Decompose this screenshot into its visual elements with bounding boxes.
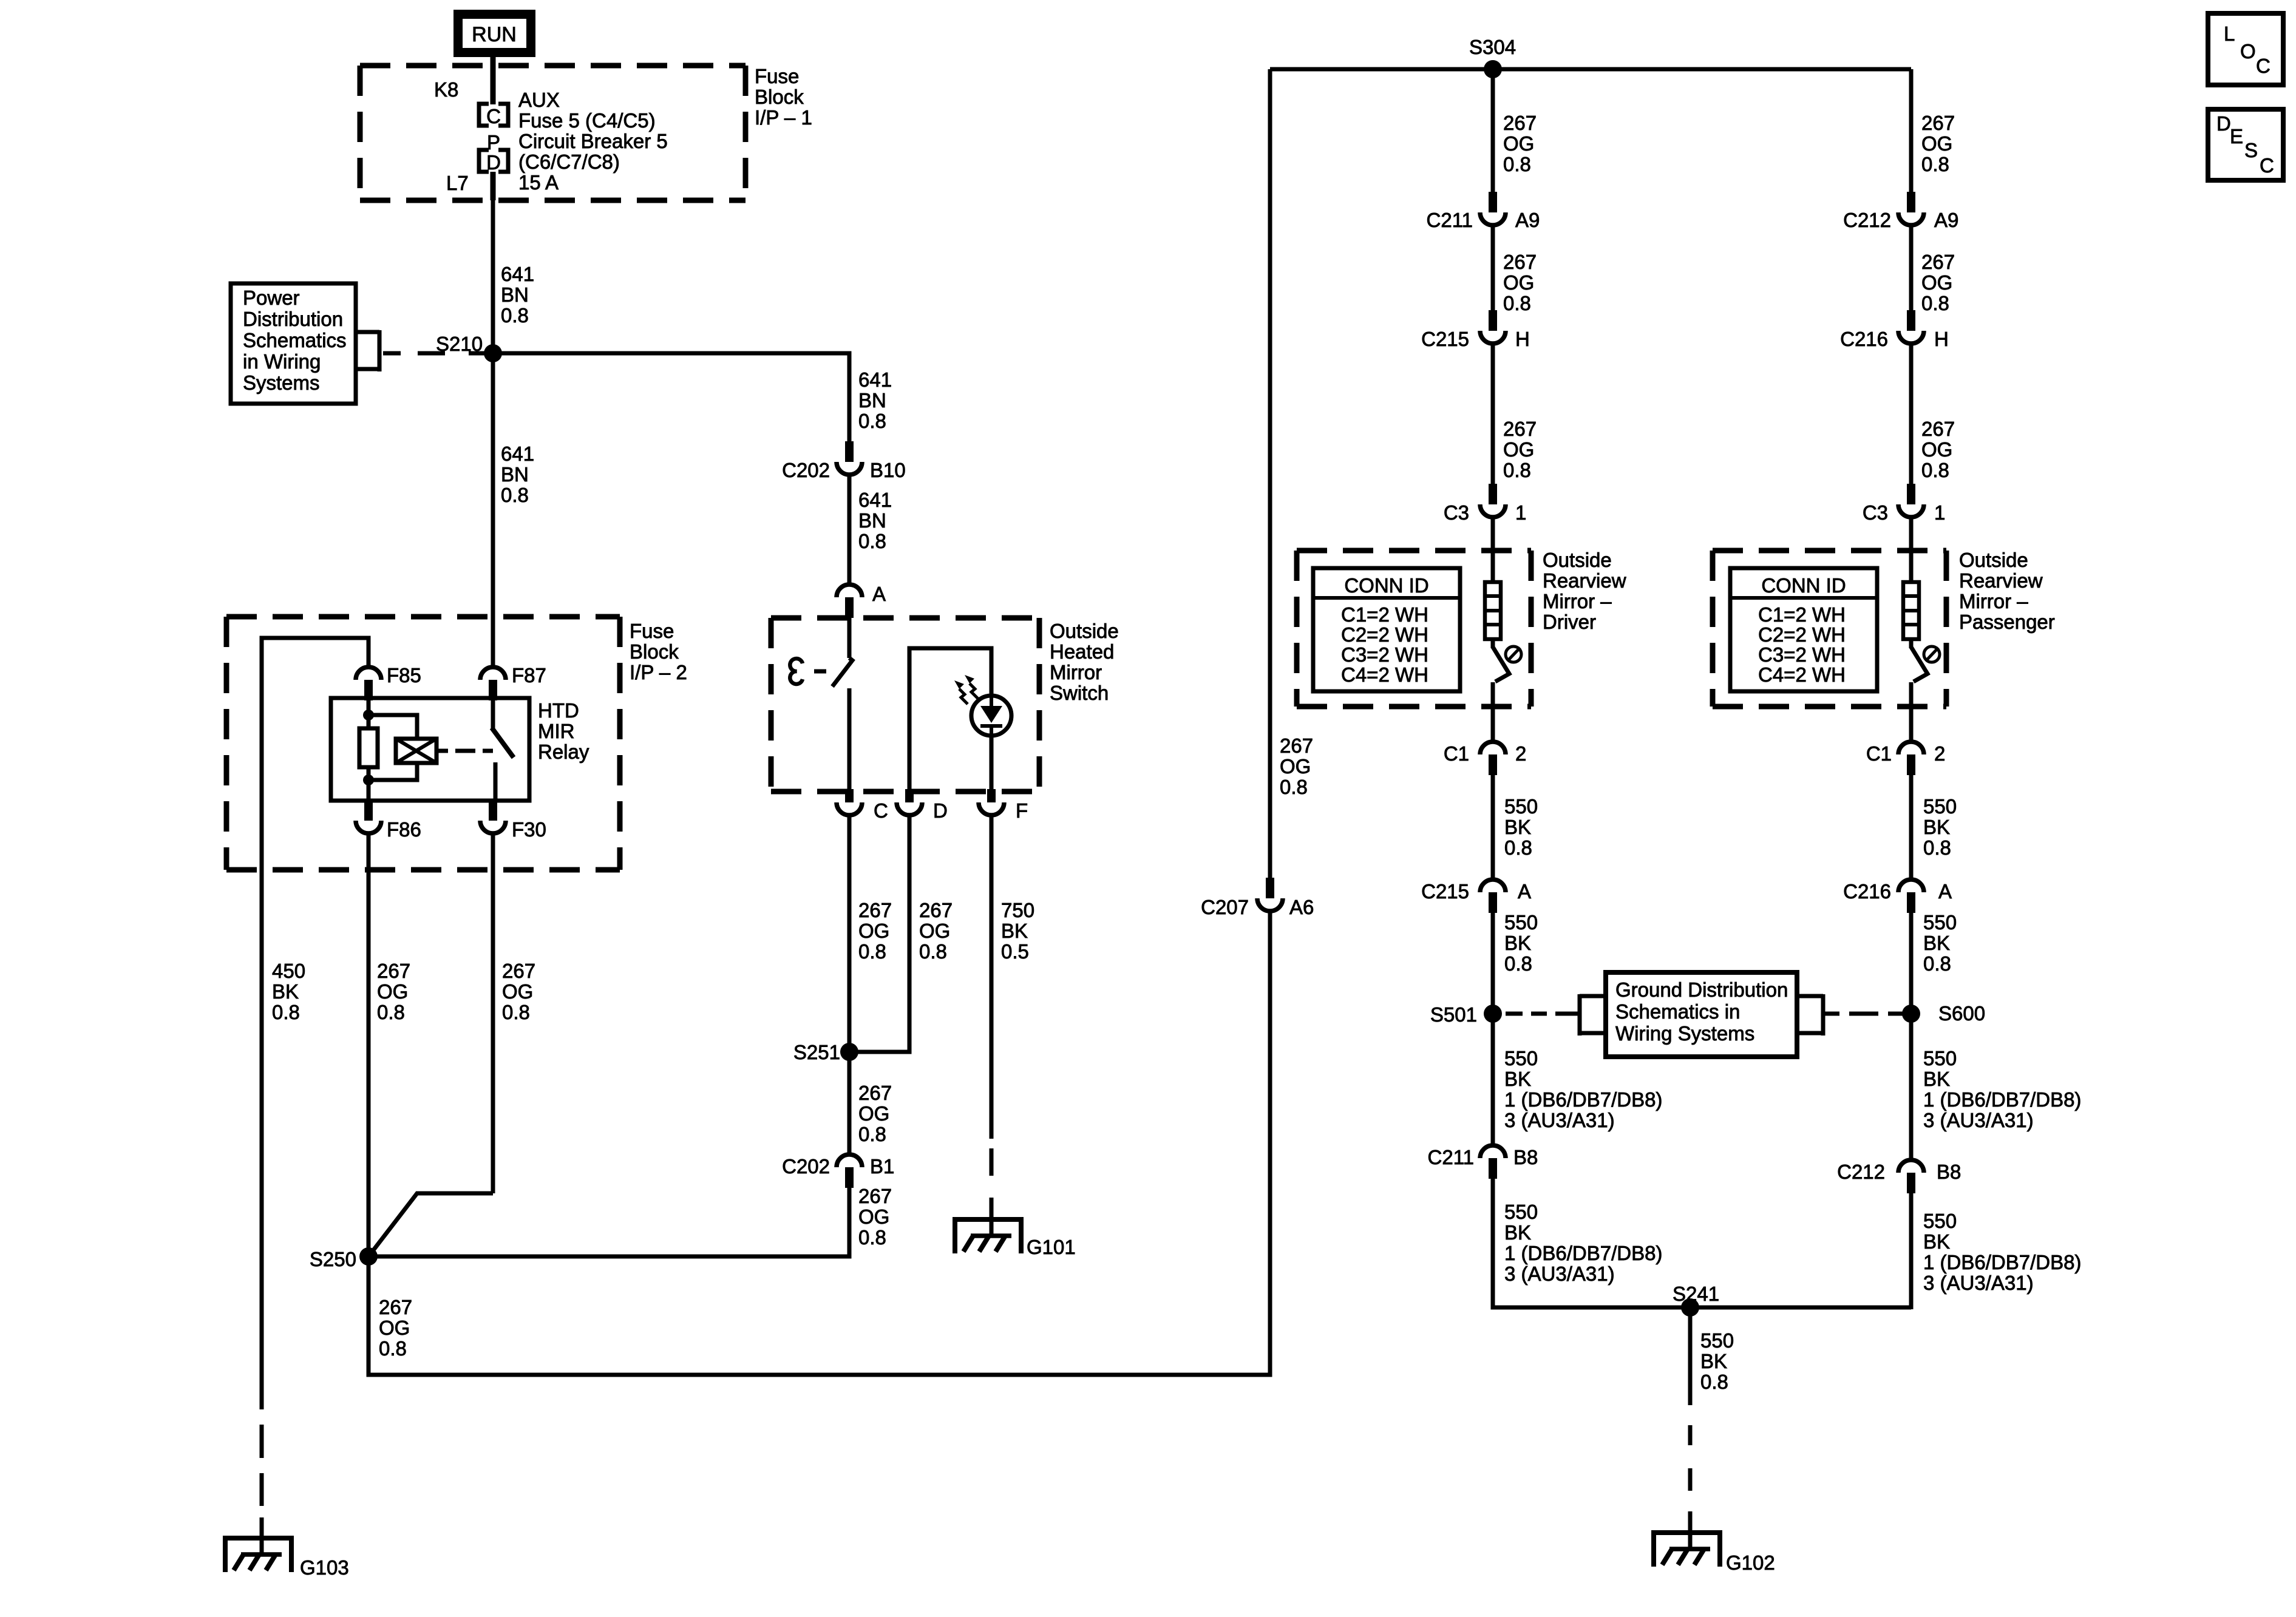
- wire label 641 BN 0.8: [858, 368, 892, 432]
- wire label 550 BK 0.8: [1923, 795, 1957, 859]
- wire to C3 1: [1491, 345, 1495, 485]
- svg-text:267: 267: [1280, 734, 1313, 757]
- wire C207 up to top rail: [1268, 69, 1272, 878]
- svg-text:C: C: [874, 799, 888, 822]
- pin L7 label: [446, 172, 469, 194]
- wire S250 to C207 riser: [369, 913, 1270, 1375]
- pin K8 label: [434, 78, 458, 101]
- svg-text:Driver: Driver: [1543, 611, 1596, 633]
- wire to C215 H: [1491, 227, 1495, 311]
- svg-text:1 (DB6/DB7/DB8): 1 (DB6/DB7/DB8): [1504, 1088, 1662, 1111]
- svg-text:0.8: 0.8: [501, 304, 529, 327]
- svg-text:Schematics: Schematics: [243, 329, 347, 351]
- svg-text:OG: OG: [858, 920, 889, 942]
- wire label 550 BK 0.8: [1504, 911, 1538, 975]
- svg-text:Mirror: Mirror: [1050, 661, 1102, 683]
- svg-text:BN: BN: [858, 389, 886, 412]
- svg-text:Passenger: Passenger: [1959, 611, 2055, 633]
- svg-text:641: 641: [858, 489, 892, 511]
- svg-text:OG: OG: [1280, 755, 1311, 778]
- dashed link box to S600: [1823, 1012, 1906, 1016]
- label Outside Heated Mirror Switch: [1050, 620, 1119, 704]
- svg-text:0.8: 0.8: [379, 1337, 407, 1360]
- svg-text:H: H: [1515, 328, 1530, 350]
- heater element driver: [1485, 519, 1501, 639]
- wire label 267 OG 0.8: [1921, 112, 1955, 175]
- wire label 550 BK 1 3: [1504, 1047, 1662, 1131]
- svg-text:267: 267: [1921, 251, 1955, 273]
- svg-text:3 (AU3/A31): 3 (AU3/A31): [1504, 1263, 1615, 1285]
- svg-text:Fuse: Fuse: [630, 620, 674, 642]
- svg-text:267: 267: [377, 960, 410, 982]
- ground G102: [1654, 1533, 1775, 1574]
- svg-text:C202: C202: [782, 1155, 830, 1178]
- wire 450 BK to G103: [260, 1425, 264, 1556]
- svg-text:S251: S251: [793, 1041, 840, 1063]
- svg-text:0.8: 0.8: [1503, 153, 1531, 175]
- svg-text:0.8: 0.8: [858, 940, 886, 963]
- right bracket of ground distribution box: [1797, 994, 1823, 1036]
- svg-text:Outside: Outside: [1543, 549, 1612, 571]
- svg-text:3 (AU3/A31): 3 (AU3/A31): [1504, 1109, 1615, 1131]
- connector C216 pin H: [1840, 310, 1949, 350]
- svg-text:550: 550: [1923, 795, 1957, 818]
- connector pin A of switch: [837, 583, 886, 618]
- wire F to G101: [990, 817, 994, 1237]
- svg-text:Rearview: Rearview: [1543, 569, 1626, 592]
- svg-text:G101: G101: [1027, 1236, 1076, 1258]
- connector C212 pin A9: [1843, 192, 1958, 231]
- outside rearview mirror driver dashed box: [1297, 551, 1531, 707]
- svg-text:A: A: [1518, 880, 1531, 903]
- node S250: [310, 1247, 378, 1270]
- svg-text:H: H: [1934, 328, 1949, 350]
- connector C211 pin B8: [1428, 1145, 1538, 1179]
- svg-text:C215: C215: [1421, 328, 1469, 350]
- svg-text:BK: BK: [1923, 1068, 1950, 1090]
- ground G101: [955, 1219, 1076, 1258]
- wire blade to pin C: [847, 688, 852, 802]
- svg-text:B8: B8: [1513, 1146, 1538, 1168]
- wire label 267 OG 0.8: [1921, 418, 1955, 481]
- svg-text:S501: S501: [1430, 1003, 1477, 1026]
- svg-text:550: 550: [1504, 1047, 1538, 1070]
- svg-text:BN: BN: [858, 509, 886, 532]
- wire C212 B8 to bottom rail: [1909, 1193, 1914, 1309]
- wire D to S251: [849, 817, 909, 1052]
- svg-text:BN: BN: [501, 283, 529, 306]
- svg-text:C215: C215: [1421, 880, 1469, 903]
- wire label 267 OG 0.8: [1921, 251, 1955, 314]
- svg-text:0.8: 0.8: [858, 1123, 886, 1145]
- svg-text:0.8: 0.8: [1921, 459, 1949, 481]
- svg-text:Mirror –: Mirror –: [1543, 590, 1612, 612]
- svg-text:C4=2 WH: C4=2 WH: [1758, 663, 1846, 686]
- svg-text:0.8: 0.8: [919, 940, 947, 963]
- svg-text:C: C: [486, 105, 501, 127]
- svg-text:C216: C216: [1843, 880, 1891, 903]
- svg-text:B8: B8: [1937, 1161, 1961, 1183]
- CONN ID table driver: [1313, 568, 1460, 691]
- svg-text:C4=2 WH: C4=2 WH: [1341, 663, 1428, 686]
- svg-text:Schematics in: Schematics in: [1615, 1000, 1740, 1023]
- wire label 267 OG 0.8: [919, 899, 953, 963]
- svg-text:A9: A9: [1515, 209, 1540, 231]
- svg-text:550: 550: [1504, 795, 1538, 818]
- node S600: [1902, 1002, 1985, 1025]
- wire top rail down to C212 A9: [1909, 69, 1914, 193]
- wire S210 down to F87: [491, 353, 495, 666]
- svg-text:A: A: [872, 583, 886, 605]
- connector C202 pin B10: [782, 441, 906, 481]
- svg-text:Fuse 5 (C4/C5): Fuse 5 (C4/C5): [518, 109, 656, 132]
- connector F85: [356, 664, 421, 700]
- wire fuse to S210: [491, 172, 496, 353]
- thermal switch driver: [1493, 639, 1521, 743]
- node S210: [436, 333, 502, 362]
- heater element passenger: [1903, 519, 1919, 639]
- svg-text:267: 267: [1503, 418, 1537, 440]
- svg-text:C211: C211: [1428, 1146, 1474, 1168]
- dashed link S501 to box: [1506, 1012, 1580, 1016]
- svg-text:BK: BK: [1923, 932, 1950, 954]
- svg-text:0.8: 0.8: [1923, 952, 1951, 975]
- svg-text:0.8: 0.8: [1921, 153, 1949, 175]
- svg-text:OG: OG: [379, 1317, 410, 1339]
- connector C215 pin H: [1421, 310, 1530, 350]
- svg-text:C: C: [2256, 55, 2271, 77]
- svg-text:A9: A9: [1934, 209, 1958, 231]
- svg-text:0.8: 0.8: [858, 1226, 886, 1249]
- connector pin F: [979, 789, 1028, 822]
- node S241: [1673, 1283, 1719, 1317]
- svg-text:C1: C1: [1866, 742, 1892, 765]
- svg-text:C216: C216: [1840, 328, 1888, 350]
- LED branch wire from pin D: [909, 648, 991, 802]
- svg-text:0.8: 0.8: [1503, 292, 1531, 314]
- fuse value labels: [518, 89, 668, 194]
- svg-text:C3: C3: [1444, 501, 1469, 524]
- wire label 450 BK 0.8: [272, 960, 305, 1023]
- svg-text:CONN ID: CONN ID: [1761, 574, 1846, 597]
- wire B10 to switch pin A: [847, 476, 852, 583]
- label Fuse Block I/P-2: [630, 620, 687, 683]
- wire label 550 BK 0.8: [1700, 1329, 1734, 1393]
- svg-text:Outside: Outside: [1959, 549, 2028, 571]
- svg-text:0.8: 0.8: [1923, 836, 1951, 859]
- left bracket of ground distribution box: [1580, 994, 1606, 1036]
- connector F87: [480, 664, 546, 700]
- svg-text:BK: BK: [1700, 1350, 1727, 1372]
- svg-text:S304: S304: [1469, 36, 1516, 58]
- svg-text:0.8: 0.8: [1503, 459, 1531, 481]
- svg-text:1 (DB6/DB7/DB8): 1 (DB6/DB7/DB8): [1923, 1251, 2081, 1273]
- svg-text:0.8: 0.8: [1504, 836, 1532, 859]
- wire label 267 OG 0.8: [502, 960, 535, 1023]
- svg-text:267: 267: [858, 1082, 892, 1104]
- wire to C3 1: [1909, 345, 1914, 485]
- svg-text:in Wiring: in Wiring: [243, 350, 321, 373]
- svg-text:D: D: [933, 799, 948, 822]
- svg-text:C207: C207: [1201, 896, 1249, 918]
- svg-text:BK: BK: [272, 980, 299, 1003]
- connector C216 pin A: [1843, 880, 1952, 913]
- RUN ignition-position box: [453, 10, 535, 57]
- connector pin D: [897, 789, 948, 822]
- wire F30 down with jog to S250: [369, 835, 493, 1256]
- svg-text:F86: F86: [387, 818, 421, 841]
- svg-text:BK: BK: [1504, 1068, 1531, 1090]
- svg-text:OG: OG: [858, 1205, 889, 1228]
- svg-text:C3=2 WH: C3=2 WH: [1758, 643, 1846, 666]
- svg-text:0.8: 0.8: [1700, 1371, 1728, 1393]
- connector C3 pin 1 passenger: [1863, 484, 1946, 524]
- svg-text:3 (AU3/A31): 3 (AU3/A31): [1923, 1272, 2034, 1294]
- svg-text:267: 267: [919, 899, 953, 921]
- label HTD MIR Relay: [538, 699, 589, 763]
- svg-text:0.8: 0.8: [1921, 292, 1949, 314]
- outside heated mirror switch dashed box: [771, 618, 1039, 792]
- connector C3 pin 1 driver: [1444, 484, 1527, 524]
- svg-text:550: 550: [1504, 911, 1538, 934]
- wire label 550 BK 1 3: [1923, 1047, 2081, 1131]
- svg-text:Power: Power: [243, 286, 300, 309]
- svg-text:BK: BK: [1504, 932, 1531, 954]
- svg-text:C3=2 WH: C3=2 WH: [1341, 643, 1428, 666]
- svg-text:BK: BK: [1923, 1230, 1950, 1253]
- svg-text:BK: BK: [1504, 816, 1531, 838]
- svg-text:L: L: [2224, 22, 2235, 45]
- svg-text:450: 450: [272, 960, 305, 982]
- svg-text:0.8: 0.8: [377, 1001, 405, 1023]
- svg-text:G102: G102: [1726, 1551, 1775, 1574]
- wire S304 to C211 A9: [1491, 69, 1495, 193]
- svg-text:267: 267: [858, 899, 892, 921]
- svg-text:AUX: AUX: [518, 89, 560, 111]
- svg-text:15 A: 15 A: [518, 171, 559, 194]
- label Outside Rearview Mirror Passenger: [1959, 549, 2055, 633]
- svg-text:1: 1: [1515, 501, 1526, 524]
- wire label 550 BK 1 3: [1504, 1201, 1662, 1285]
- svg-text:750: 750: [1001, 899, 1034, 921]
- svg-text:BN: BN: [501, 463, 529, 486]
- relay switch: [492, 700, 514, 801]
- svg-text:Block: Block: [630, 640, 679, 663]
- svg-text:L7: L7: [446, 172, 469, 194]
- svg-text:S241: S241: [1673, 1283, 1719, 1305]
- dashed link to S210: [383, 351, 485, 356]
- wire label 641 BN 0.8: [501, 442, 534, 506]
- svg-text:S600: S600: [1938, 1002, 1985, 1025]
- circuit breaker 5 (AUX fuse) symbol C-P-D: [479, 104, 508, 174]
- svg-text:Block: Block: [755, 86, 804, 108]
- node S501: [1430, 1003, 1502, 1026]
- svg-text:641: 641: [501, 442, 534, 465]
- wire S210 right and down to C202 B10: [493, 353, 849, 444]
- wire C to S251: [847, 817, 852, 1052]
- wire S241 to G102: [1688, 1307, 1693, 1550]
- svg-text:Ground Distribution: Ground Distribution: [1615, 978, 1788, 1001]
- svg-text:HTD: HTD: [538, 699, 579, 722]
- svg-text:E: E: [2230, 125, 2243, 147]
- svg-text:F85: F85: [387, 664, 421, 686]
- wire label 267 OG 0.8: [858, 1185, 892, 1249]
- svg-text:Fuse: Fuse: [755, 65, 799, 87]
- svg-text:I/P – 1: I/P – 1: [755, 106, 812, 129]
- svg-text:267: 267: [502, 960, 535, 982]
- svg-text:Outside: Outside: [1050, 620, 1119, 642]
- svg-text:RUN: RUN: [472, 23, 517, 46]
- svg-text:267: 267: [379, 1296, 412, 1318]
- svg-text:C212: C212: [1843, 209, 1891, 231]
- svg-text:C212: C212: [1837, 1161, 1885, 1183]
- wire label 267 OG 0.8: [858, 899, 892, 963]
- wire label 267 OG 0.8: [1503, 418, 1537, 481]
- svg-text:C1: C1: [1444, 742, 1469, 765]
- connector C215 pin A: [1421, 880, 1531, 913]
- svg-text:OG: OG: [858, 1102, 889, 1125]
- outside rearview mirror passenger dashed box: [1713, 551, 1946, 707]
- svg-text:BK: BK: [1001, 920, 1028, 942]
- HTD MIR relay box: [331, 698, 529, 801]
- svg-text:0.8: 0.8: [1280, 776, 1308, 798]
- wire label 267 OG 0.8: [377, 960, 410, 1023]
- svg-text:550: 550: [1923, 1047, 1957, 1070]
- svg-text:Rearview: Rearview: [1959, 569, 2043, 592]
- wire S251 to C202 B1: [847, 1052, 852, 1154]
- svg-text:S: S: [2244, 139, 2258, 161]
- svg-text:C: C: [2260, 154, 2274, 177]
- svg-text:3 (AU3/A31): 3 (AU3/A31): [1923, 1109, 2034, 1131]
- svg-text:D: D: [2216, 112, 2231, 135]
- svg-text:Heated: Heated: [1050, 640, 1114, 663]
- svg-text:550: 550: [1700, 1329, 1734, 1352]
- svg-text:OG: OG: [919, 920, 950, 942]
- svg-text:C211: C211: [1427, 209, 1473, 231]
- svg-text:K8: K8: [434, 78, 458, 101]
- LED indicator: [971, 696, 1011, 736]
- svg-text:F: F: [1016, 799, 1028, 822]
- label Fuse Block I/P-1: [755, 65, 812, 129]
- wire F86 to S250: [367, 835, 371, 1256]
- internal loop wire to F85: [262, 638, 369, 1409]
- svg-text:267: 267: [1921, 112, 1955, 134]
- wire label 267 OG 0.8: [1503, 112, 1537, 175]
- svg-text:(C6/C7/C8): (C6/C7/C8): [518, 151, 620, 173]
- svg-text:2: 2: [1934, 742, 1945, 765]
- svg-text:1: 1: [1934, 501, 1945, 524]
- svg-text:267: 267: [1503, 251, 1537, 273]
- svg-text:OG: OG: [1503, 271, 1534, 294]
- fuse block I/P-2 dashed box: [226, 617, 620, 870]
- wire B1 down to S250: [369, 1188, 849, 1256]
- svg-text:G103: G103: [300, 1556, 349, 1579]
- wire to C216 H: [1909, 227, 1914, 311]
- ground G103: [225, 1538, 349, 1579]
- svg-text:A: A: [1938, 880, 1952, 903]
- fuse block I/P-1 dashed box: [360, 66, 746, 200]
- Power Distribution reference box: [231, 283, 356, 404]
- wire label 750 BK 0.5: [1001, 899, 1034, 963]
- connector F86: [356, 800, 421, 841]
- svg-text:OG: OG: [1921, 271, 1952, 294]
- svg-text:OG: OG: [502, 980, 533, 1003]
- svg-text:OG: OG: [1503, 438, 1534, 461]
- wire C211 B8 to bottom rail: [1493, 1179, 1911, 1307]
- svg-text:C2=2 WH: C2=2 WH: [1341, 623, 1428, 646]
- svg-text:I/P – 2: I/P – 2: [630, 661, 687, 683]
- svg-text:550: 550: [1504, 1201, 1538, 1223]
- svg-text:C202: C202: [782, 459, 830, 481]
- label Outside Rearview Mirror Driver: [1543, 549, 1626, 633]
- wire label 267 OG 0.8: [1503, 251, 1537, 314]
- svg-text:B1: B1: [870, 1155, 894, 1178]
- wire label 267 OG 0.8: [1280, 734, 1313, 798]
- svg-text:OG: OG: [1921, 132, 1952, 155]
- wire label 641 BN 0.8: [858, 489, 892, 552]
- svg-text:0.8: 0.8: [858, 530, 886, 552]
- svg-text:0.8: 0.8: [1504, 952, 1532, 975]
- svg-text:B10: B10: [870, 459, 906, 481]
- svg-text:0.8: 0.8: [502, 1001, 530, 1023]
- svg-text:Switch: Switch: [1050, 682, 1109, 704]
- wire label 267 OG 0.8: [379, 1296, 412, 1360]
- connector C211 pin A9: [1427, 192, 1540, 231]
- svg-text:Systems: Systems: [243, 371, 320, 394]
- svg-text:C3: C3: [1863, 501, 1888, 524]
- svg-text:Distribution: Distribution: [243, 308, 343, 330]
- wire label 550 BK 0.8: [1504, 795, 1538, 859]
- wire label 550 BK 0.8: [1923, 911, 1957, 975]
- LED light arrows: [954, 675, 991, 789]
- thermal switch passenger: [1911, 639, 1940, 743]
- svg-text:Mirror –: Mirror –: [1959, 590, 2028, 612]
- svg-text:0.8: 0.8: [272, 1001, 300, 1023]
- svg-text:2: 2: [1515, 742, 1526, 765]
- relay coil resistor branch: [359, 700, 378, 801]
- svg-text:1 (DB6/DB7/DB8): 1 (DB6/DB7/DB8): [1504, 1242, 1662, 1264]
- svg-text:0.8: 0.8: [501, 484, 529, 506]
- wire label 550 BK 1 3: [1923, 1210, 2081, 1294]
- wire to S501: [1491, 913, 1495, 1145]
- connector C207 pin A6: [1201, 878, 1314, 918]
- svg-text:CONN ID: CONN ID: [1344, 574, 1428, 597]
- svg-text:F30: F30: [512, 818, 546, 841]
- svg-text:S210: S210: [436, 333, 483, 355]
- node S251: [793, 1041, 858, 1063]
- wire to S600: [1909, 913, 1914, 1160]
- wire RUN to fuse: [491, 57, 496, 104]
- svg-text:Relay: Relay: [538, 741, 589, 763]
- svg-text:C1=2 WH: C1=2 WH: [1341, 603, 1428, 626]
- svg-text:550: 550: [1923, 911, 1957, 934]
- svg-text:S250: S250: [310, 1248, 356, 1270]
- svg-text:O: O: [2240, 40, 2256, 63]
- connector C1 pin 2 passenger: [1866, 742, 1946, 775]
- connector C212 pin B8: [1837, 1160, 1961, 1193]
- connector pin C: [837, 688, 888, 822]
- svg-text:F87: F87: [512, 664, 546, 686]
- connector F30: [480, 800, 546, 841]
- svg-text:0.5: 0.5: [1001, 940, 1029, 963]
- connector C202 pin B1: [782, 1154, 894, 1188]
- relay coil winding branch: [363, 710, 436, 785]
- switch actuator symbol: [790, 659, 826, 684]
- wire label 267 OG 0.8: [858, 1082, 892, 1145]
- svg-text:267: 267: [1503, 112, 1537, 134]
- svg-text:641: 641: [858, 368, 892, 391]
- svg-text:OG: OG: [1921, 438, 1952, 461]
